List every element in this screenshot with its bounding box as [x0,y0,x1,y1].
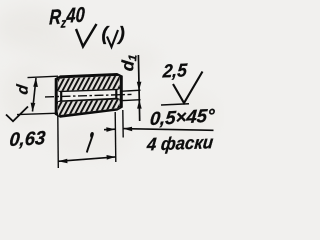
centerline (dash-dot axis) [45,94,132,97]
label 0,5x45deg [149,105,216,129]
hatching bottom wall [58,100,120,116]
roughness note Rz40 (general surface finish) [49,4,86,32]
bore bottom line [61,99,116,102]
d dimension: top extension line [28,76,59,77]
d lower arrowhead (points down) [31,103,36,112]
bore chamfer diagonals right [116,87,121,100]
roughness check symbol under Rz40 [76,24,97,47]
d1 upper arrowhead (points down) [137,82,142,91]
d dimension: bottom extension line [17,113,58,114]
roughness 2,5 check symbol [173,72,203,104]
roughness 0,63 check on bottom surface [6,107,28,122]
bore bottom extension line [123,99,141,102]
l dimension line [58,157,115,161]
left chamfer edge line [60,77,62,116]
chamfer dim: left arrow (points right at extension line) [104,127,115,132]
d1 lower arrowhead (points up) [137,100,142,109]
svg-text:0,63: 0,63 [9,127,47,150]
l right arrowhead [107,155,116,160]
d upper arrowhead (points up) [33,78,38,87]
d dimension line [33,78,37,112]
bore top extension line [123,90,141,91]
svg-text:2,5: 2,5 [161,60,188,82]
roughness 2,5 label [161,60,188,82]
svg-text:0,5×45°: 0,5×45° [149,105,216,129]
chamfer dim: right face extension line [122,110,124,138]
parentheses around small check [102,24,125,45]
chamfer dim: right arrow with long shelf line [123,127,214,132]
right chamfer edge line [115,75,117,110]
svg-text:4 фаски: 4 фаски [145,132,214,155]
label 0,63 [9,127,47,150]
label l (script ell) [87,133,93,153]
hatching top wall [58,76,120,91]
svg-text:): ) [117,24,125,45]
roughness 2,5 shelf line [161,104,189,105]
bore chamfer diagonals left [56,89,61,103]
label 4 фаски [145,132,214,155]
small check in parentheses [107,30,118,47]
body outline (bushing cross-section with chamfered corners) [56,75,121,117]
l left arrowhead [58,159,67,164]
bore top line [61,89,116,91]
l dimension: right extension line [114,112,117,162]
label d rotated [15,83,32,95]
d1 dimension line [138,55,139,121]
label d1 (bore diameter), rotated [118,53,140,72]
l dimension: left extension line [57,116,60,168]
